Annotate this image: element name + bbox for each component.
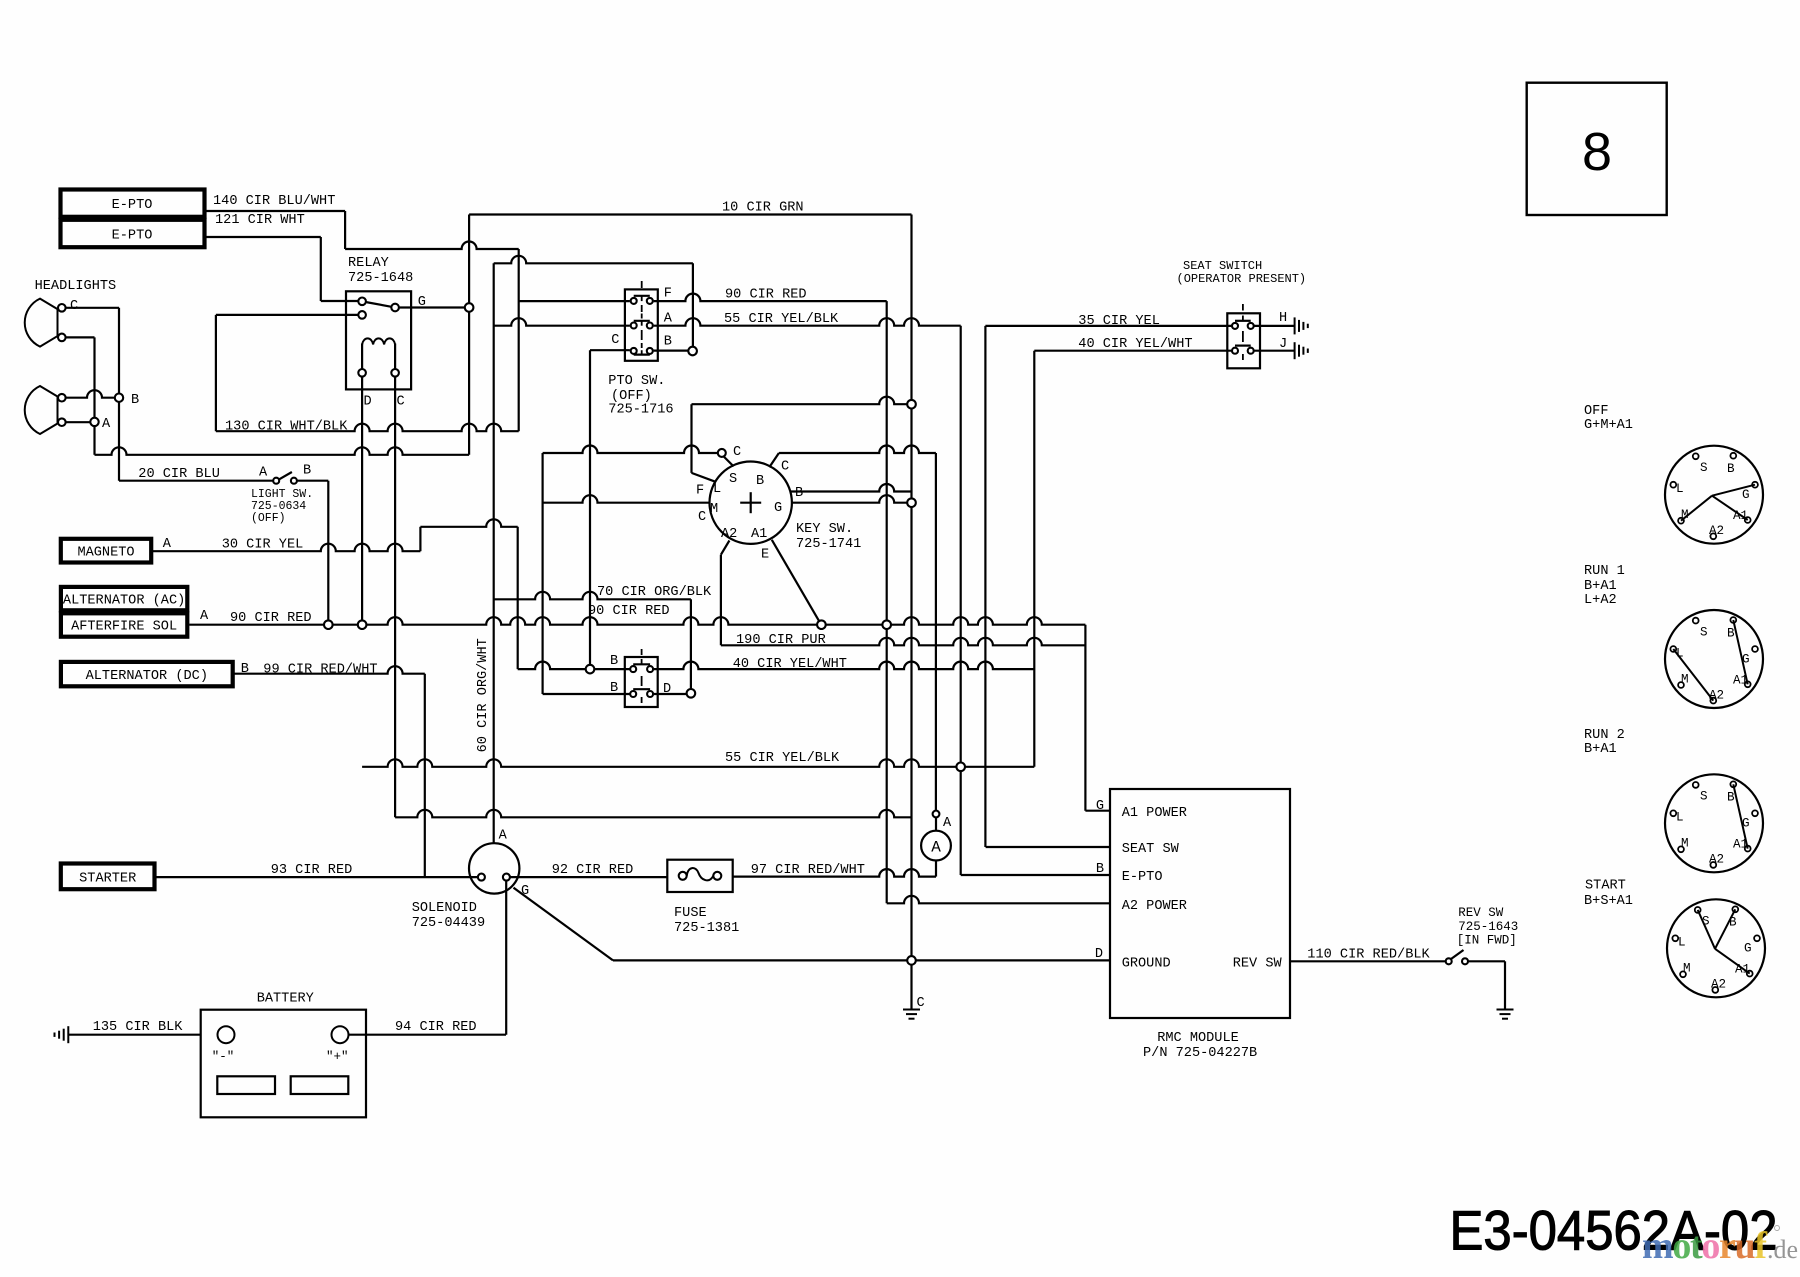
svg-text:55 CIR YEL/BLK: 55 CIR YEL/BLK bbox=[724, 312, 839, 327]
svg-text:PTO SW.: PTO SW. bbox=[608, 374, 665, 389]
svg-text:D: D bbox=[663, 682, 671, 697]
svg-text:KEY SW.: KEY SW. bbox=[796, 522, 853, 537]
svg-text:F: F bbox=[664, 287, 672, 302]
svg-text:B: B bbox=[756, 474, 764, 489]
svg-text:97 CIR RED/WHT: 97 CIR RED/WHT bbox=[751, 863, 865, 878]
svg-text:E-PTO: E-PTO bbox=[112, 229, 153, 244]
svg-text:B+A1: B+A1 bbox=[1584, 579, 1617, 594]
svg-text:E-PTO: E-PTO bbox=[112, 198, 153, 213]
svg-text:(OFF): (OFF) bbox=[251, 512, 286, 525]
svg-text:SEAT SWITCH: SEAT SWITCH bbox=[1183, 259, 1262, 273]
svg-text:MAGNETO: MAGNETO bbox=[77, 546, 134, 561]
svg-text:B: B bbox=[1727, 626, 1735, 640]
svg-text:40 CIR YEL/WHT: 40 CIR YEL/WHT bbox=[1078, 337, 1192, 352]
svg-text:C: C bbox=[733, 445, 741, 460]
svg-text:140 CIR BLU/WHT: 140 CIR BLU/WHT bbox=[213, 194, 335, 209]
svg-text:E: E bbox=[761, 548, 769, 563]
svg-text:L+A2: L+A2 bbox=[1584, 593, 1617, 608]
svg-text:8: 8 bbox=[1582, 122, 1612, 182]
svg-text:G+M+A1: G+M+A1 bbox=[1584, 418, 1633, 433]
svg-text:A: A bbox=[163, 537, 172, 552]
svg-text:A: A bbox=[200, 609, 209, 624]
svg-text:55 CIR YEL/BLK: 55 CIR YEL/BLK bbox=[725, 751, 840, 766]
svg-text:93 CIR RED: 93 CIR RED bbox=[271, 863, 353, 878]
svg-text:90 CIR RED: 90 CIR RED bbox=[725, 288, 807, 303]
svg-text:"+": "+" bbox=[326, 1050, 349, 1064]
svg-text:GROUND: GROUND bbox=[1122, 957, 1171, 972]
svg-text:90 CIR RED: 90 CIR RED bbox=[588, 604, 670, 619]
svg-text:E-PTO: E-PTO bbox=[1122, 870, 1163, 885]
svg-text:RMC MODULE: RMC MODULE bbox=[1157, 1031, 1239, 1046]
svg-text:(OPERATOR PRESENT): (OPERATOR PRESENT) bbox=[1177, 272, 1307, 286]
svg-text:10 CIR GRN: 10 CIR GRN bbox=[722, 201, 804, 216]
svg-text:B: B bbox=[303, 464, 311, 479]
svg-text:M: M bbox=[1683, 962, 1691, 976]
svg-text:B: B bbox=[1096, 862, 1104, 877]
svg-text:START: START bbox=[1585, 879, 1626, 894]
svg-text:SOLENOID: SOLENOID bbox=[412, 901, 477, 916]
svg-text:A: A bbox=[259, 466, 268, 481]
svg-text:A2: A2 bbox=[721, 527, 737, 542]
svg-text:G: G bbox=[774, 501, 782, 516]
svg-text:M: M bbox=[710, 502, 718, 517]
svg-text:20 CIR BLU: 20 CIR BLU bbox=[138, 467, 220, 482]
svg-text:725-1648: 725-1648 bbox=[348, 271, 413, 286]
svg-text:B+A1: B+A1 bbox=[1584, 742, 1617, 757]
svg-text:C: C bbox=[611, 333, 619, 348]
svg-text:RUN 1: RUN 1 bbox=[1584, 564, 1625, 579]
svg-text:L: L bbox=[1678, 936, 1686, 950]
svg-text:A1 POWER: A1 POWER bbox=[1122, 806, 1187, 821]
svg-text:B: B bbox=[1727, 791, 1735, 805]
svg-text:135 CIR BLK: 135 CIR BLK bbox=[93, 1020, 184, 1035]
svg-text:99 CIR RED/WHT: 99 CIR RED/WHT bbox=[263, 663, 377, 678]
svg-text:motoruf: motoruf bbox=[1642, 1225, 1768, 1267]
svg-text:35 CIR YEL: 35 CIR YEL bbox=[1078, 314, 1160, 329]
svg-text:725-04439: 725-04439 bbox=[412, 916, 485, 931]
svg-text:G: G bbox=[1096, 799, 1104, 814]
svg-text:C: C bbox=[698, 510, 706, 525]
svg-text:RUN 2: RUN 2 bbox=[1584, 728, 1625, 743]
svg-text:J: J bbox=[1279, 337, 1287, 352]
svg-text:A2 POWER: A2 POWER bbox=[1122, 899, 1187, 914]
svg-text:B: B bbox=[795, 486, 803, 501]
svg-text:B+S+A1: B+S+A1 bbox=[1584, 894, 1633, 909]
svg-text:"-": "-" bbox=[212, 1050, 235, 1064]
svg-text:C: C bbox=[917, 996, 925, 1011]
svg-text:.de: .de bbox=[1767, 1235, 1798, 1264]
svg-text:D: D bbox=[1095, 947, 1103, 962]
svg-text:A: A bbox=[102, 417, 111, 432]
svg-text:C: C bbox=[397, 395, 405, 410]
svg-text:C: C bbox=[781, 460, 789, 475]
svg-text:B: B bbox=[131, 393, 139, 408]
svg-text:OFF: OFF bbox=[1584, 404, 1608, 419]
svg-text:A: A bbox=[499, 829, 508, 844]
svg-text:725-1643: 725-1643 bbox=[1458, 920, 1518, 934]
svg-text:B: B bbox=[664, 335, 672, 350]
svg-text:M: M bbox=[1681, 837, 1689, 851]
svg-text:ALTERNATOR (DC): ALTERNATOR (DC) bbox=[86, 669, 208, 684]
svg-text:STARTER: STARTER bbox=[79, 872, 136, 887]
svg-text:A: A bbox=[664, 312, 673, 327]
svg-text:BATTERY: BATTERY bbox=[257, 992, 314, 1007]
svg-text:A2: A2 bbox=[1709, 688, 1724, 702]
svg-text:G: G bbox=[418, 295, 426, 310]
svg-text:190 CIR PUR: 190 CIR PUR bbox=[736, 633, 826, 648]
svg-text:REV SW: REV SW bbox=[1458, 906, 1504, 920]
svg-text:RELAY: RELAY bbox=[348, 256, 389, 271]
svg-text:B: B bbox=[241, 662, 249, 677]
svg-text:[IN FWD]: [IN FWD] bbox=[1457, 934, 1517, 948]
svg-text:S: S bbox=[1700, 625, 1708, 639]
svg-text:B: B bbox=[610, 681, 618, 696]
svg-text:60 CIR ORG/WHT: 60 CIR ORG/WHT bbox=[476, 638, 491, 752]
svg-text:A: A bbox=[943, 816, 952, 831]
svg-text:M: M bbox=[1681, 672, 1689, 686]
svg-text:30 CIR YEL: 30 CIR YEL bbox=[222, 538, 304, 553]
svg-text:REV SW: REV SW bbox=[1233, 957, 1283, 972]
svg-text:A1: A1 bbox=[751, 527, 767, 542]
svg-text:130 CIR WHT/BLK: 130 CIR WHT/BLK bbox=[225, 420, 348, 435]
svg-text:725-1381: 725-1381 bbox=[674, 921, 739, 936]
svg-text:A2: A2 bbox=[1709, 853, 1724, 867]
svg-text:B: B bbox=[1727, 462, 1735, 476]
svg-text:C: C bbox=[70, 299, 78, 314]
svg-text:A2: A2 bbox=[1711, 978, 1726, 992]
svg-text:G: G bbox=[521, 884, 529, 899]
svg-text:FUSE: FUSE bbox=[674, 906, 707, 921]
svg-text:G: G bbox=[1744, 942, 1752, 956]
svg-text:S: S bbox=[1700, 790, 1708, 804]
svg-text:40 CIR YEL/WHT: 40 CIR YEL/WHT bbox=[733, 657, 847, 672]
svg-text:AFTERFIRE SOL: AFTERFIRE SOL bbox=[71, 620, 177, 635]
svg-text:70 CIR ORG/BLK: 70 CIR ORG/BLK bbox=[597, 585, 712, 600]
svg-text:D: D bbox=[364, 395, 372, 410]
svg-text:110 CIR RED/BLK: 110 CIR RED/BLK bbox=[1307, 948, 1430, 963]
svg-text:94 CIR RED: 94 CIR RED bbox=[395, 1020, 477, 1035]
svg-text:A2: A2 bbox=[1709, 524, 1724, 538]
svg-text:S: S bbox=[729, 472, 737, 487]
svg-text:L: L bbox=[713, 482, 721, 497]
svg-text:G: G bbox=[1742, 488, 1750, 502]
svg-text:H: H bbox=[1279, 311, 1287, 326]
svg-text:725-1741: 725-1741 bbox=[796, 537, 861, 552]
svg-text:B: B bbox=[610, 654, 618, 669]
svg-text:HEADLIGHTS: HEADLIGHTS bbox=[35, 279, 117, 294]
svg-text:725-1716: 725-1716 bbox=[608, 403, 673, 418]
svg-text:L: L bbox=[1676, 482, 1684, 496]
svg-text:S: S bbox=[1700, 461, 1708, 475]
svg-text:90 CIR RED: 90 CIR RED bbox=[230, 611, 312, 626]
svg-text:SEAT SW: SEAT SW bbox=[1122, 842, 1180, 857]
svg-text:ALTERNATOR (AC): ALTERNATOR (AC) bbox=[63, 593, 185, 608]
svg-text:P/N 725-04227B: P/N 725-04227B bbox=[1143, 1046, 1257, 1061]
svg-text:121 CIR WHT: 121 CIR WHT bbox=[215, 213, 305, 228]
svg-text:92 CIR RED: 92 CIR RED bbox=[552, 863, 634, 878]
svg-text:A: A bbox=[931, 839, 941, 857]
svg-text:L: L bbox=[1676, 811, 1684, 825]
svg-text:F: F bbox=[696, 484, 704, 499]
